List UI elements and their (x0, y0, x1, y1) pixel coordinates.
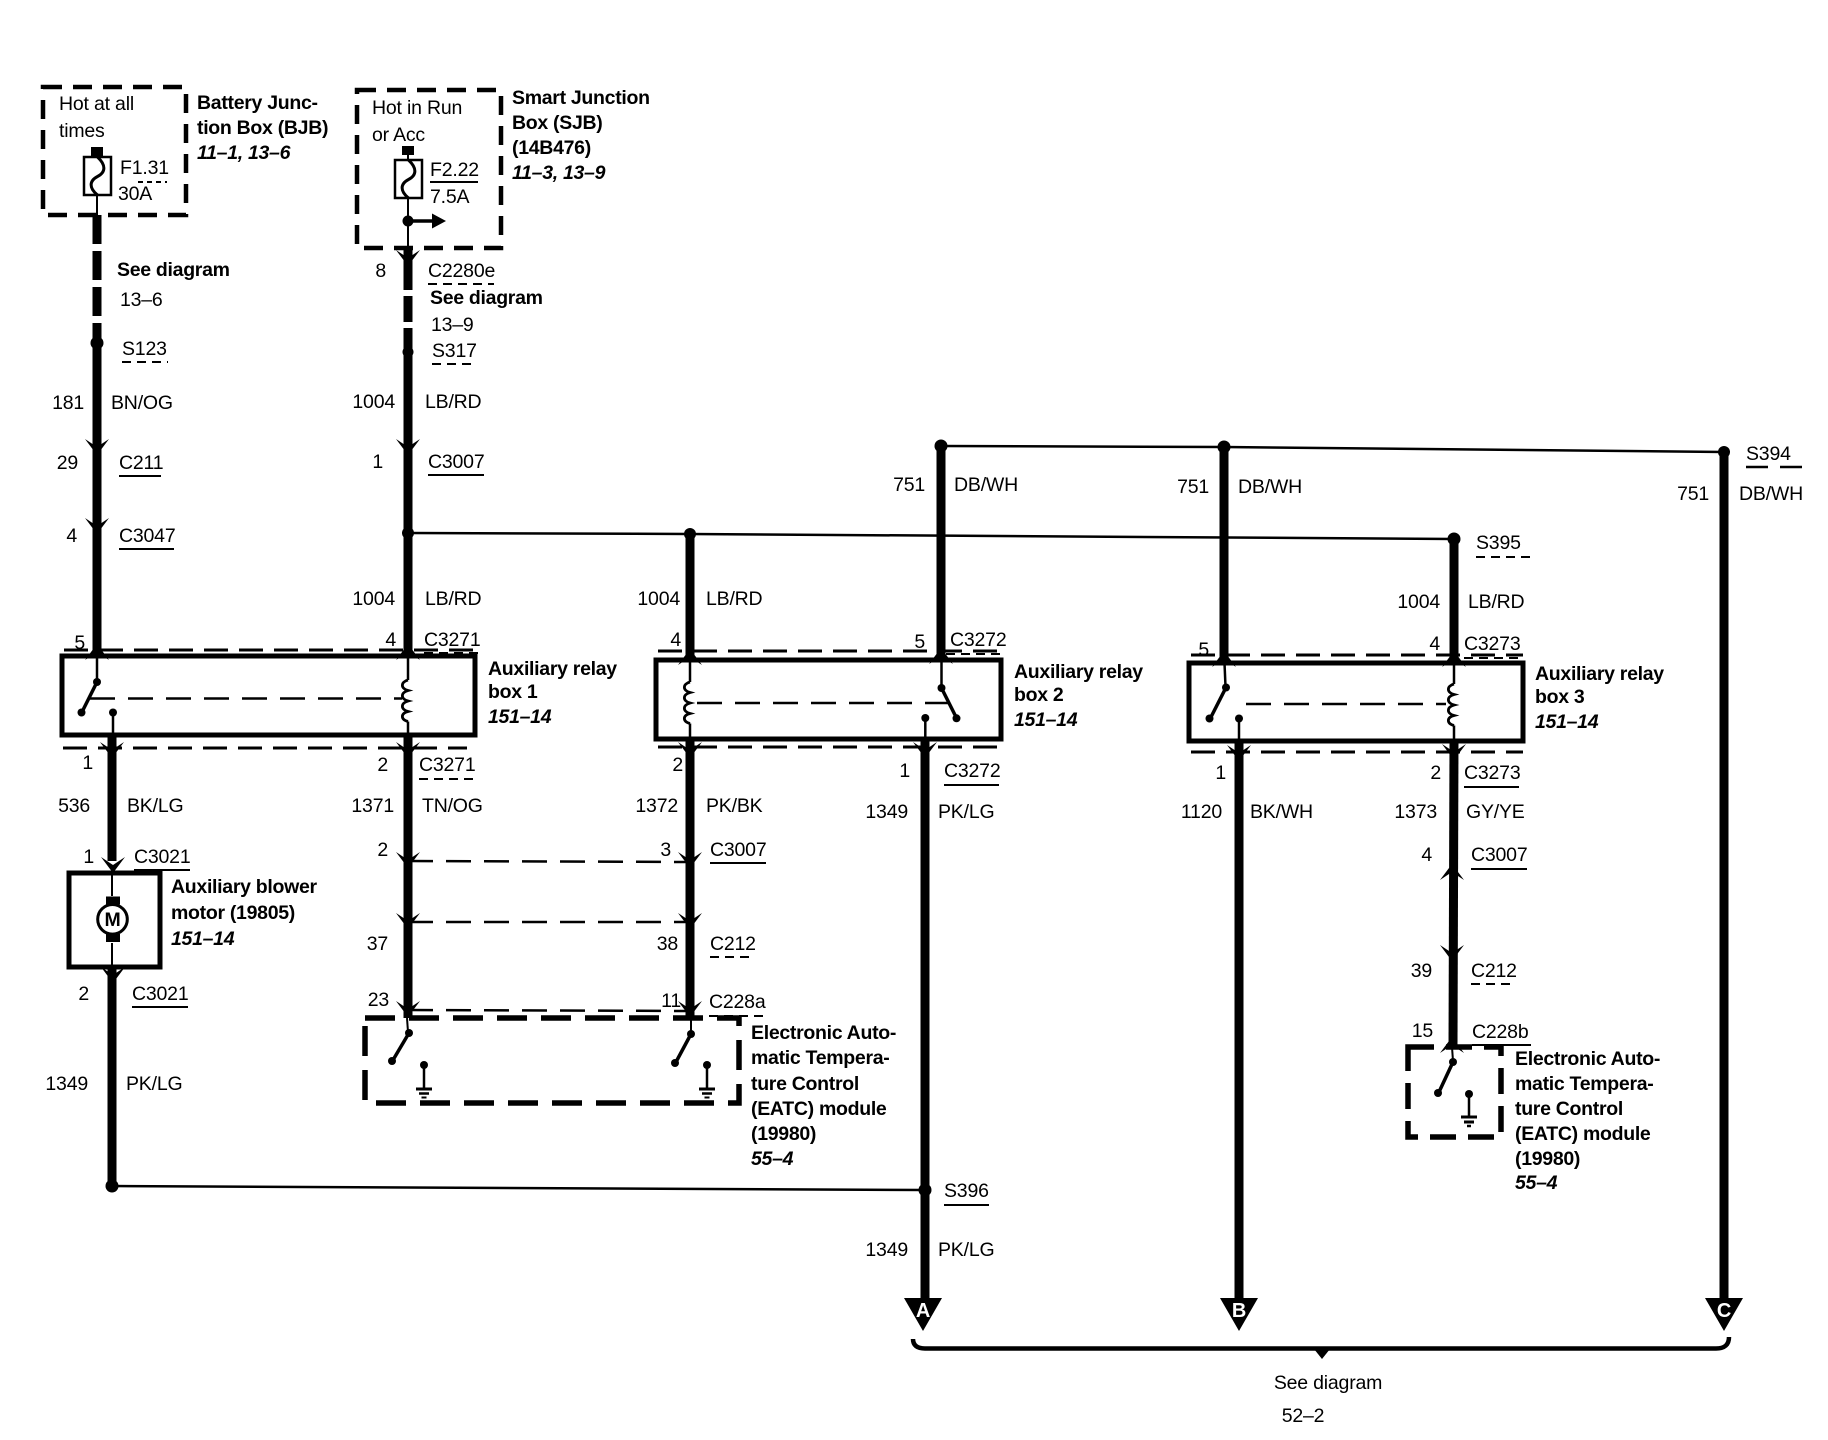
svg-text:751: 751 (893, 474, 925, 496)
svg-text:1349: 1349 (45, 1073, 88, 1095)
svg-text:(19980): (19980) (1515, 1148, 1580, 1170)
svg-text:PK/LG: PK/LG (938, 1239, 994, 1261)
svg-text:motor (19805): motor (19805) (171, 902, 295, 924)
svg-text:536: 536 (58, 795, 90, 817)
svg-text:Hot in Run: Hot in Run (372, 97, 462, 119)
svg-text:4: 4 (66, 525, 77, 547)
svg-text:1004: 1004 (352, 588, 395, 610)
svg-text:TN/OG: TN/OG (422, 795, 483, 817)
svg-text:BK/WH: BK/WH (1250, 801, 1313, 823)
svg-text:Electronic Auto-: Electronic Auto- (751, 1022, 896, 1044)
svg-text:M: M (104, 909, 120, 931)
svg-text:39: 39 (1411, 960, 1432, 982)
svg-text:1004: 1004 (637, 588, 680, 610)
svg-text:DB/WH: DB/WH (954, 474, 1018, 496)
svg-text:C3047: C3047 (119, 525, 175, 547)
svg-text:C3271: C3271 (419, 754, 475, 776)
svg-text:C3021: C3021 (132, 983, 188, 1005)
svg-text:1372: 1372 (635, 795, 678, 817)
svg-text:2: 2 (78, 983, 89, 1005)
svg-text:151–14: 151–14 (1535, 711, 1599, 733)
svg-text:55–4: 55–4 (751, 1148, 794, 1170)
svg-text:13–6: 13–6 (120, 289, 163, 311)
svg-text:151–14: 151–14 (171, 928, 235, 950)
svg-text:C212: C212 (1471, 960, 1517, 982)
svg-text:11–3, 13–9: 11–3, 13–9 (512, 162, 606, 184)
svg-text:matic Tempera-: matic Tempera- (1515, 1073, 1654, 1095)
svg-text:2: 2 (1430, 762, 1441, 784)
svg-text:F2.22: F2.22 (430, 159, 479, 181)
svg-text:Auxiliary relay: Auxiliary relay (488, 658, 617, 680)
svg-text:2: 2 (672, 754, 683, 776)
svg-text:S395: S395 (1476, 532, 1521, 554)
svg-text:C: C (1717, 1300, 1731, 1322)
svg-text:See diagram: See diagram (1274, 1372, 1382, 1394)
svg-text:Auxiliary relay: Auxiliary relay (1535, 663, 1664, 685)
svg-text:DB/WH: DB/WH (1238, 476, 1302, 498)
svg-text:30A: 30A (118, 183, 152, 205)
svg-text:GY/YE: GY/YE (1466, 801, 1525, 823)
svg-text:C3272: C3272 (944, 760, 1000, 782)
svg-text:C212: C212 (710, 933, 756, 955)
svg-text:or Acc: or Acc (372, 124, 425, 146)
svg-text:C3271: C3271 (424, 629, 480, 651)
svg-text:1349: 1349 (865, 801, 908, 823)
svg-text:C3007: C3007 (710, 839, 766, 861)
svg-text:55–4: 55–4 (1515, 1172, 1558, 1194)
svg-text:52–2: 52–2 (1282, 1405, 1325, 1427)
svg-text:C211: C211 (119, 452, 163, 474)
svg-text:times: times (59, 120, 105, 142)
svg-text:S394: S394 (1746, 443, 1791, 465)
svg-text:11–1, 13–6: 11–1, 13–6 (197, 142, 291, 164)
svg-text:Auxiliary blower: Auxiliary blower (171, 876, 318, 898)
svg-text:13–9: 13–9 (431, 314, 474, 336)
svg-text:23: 23 (368, 989, 389, 1011)
svg-text:8: 8 (375, 260, 386, 282)
svg-text:matic Tempera-: matic Tempera- (751, 1047, 890, 1069)
svg-text:1373: 1373 (1394, 801, 1437, 823)
svg-text:2: 2 (377, 839, 388, 861)
svg-text:C3273: C3273 (1464, 762, 1520, 784)
svg-text:PK/BK: PK/BK (706, 795, 763, 817)
svg-text:4: 4 (1421, 844, 1432, 866)
svg-text:C3272: C3272 (950, 629, 1006, 651)
svg-text:3: 3 (660, 839, 671, 861)
svg-text:BN/OG: BN/OG (111, 392, 173, 414)
svg-text:C3007: C3007 (1471, 844, 1527, 866)
svg-text:751: 751 (1177, 476, 1209, 498)
svg-text:1004: 1004 (352, 391, 395, 413)
svg-text:C3007: C3007 (428, 451, 484, 473)
svg-text:(19980): (19980) (751, 1123, 816, 1145)
svg-text:Smart Junction: Smart Junction (512, 87, 650, 109)
svg-text:S317: S317 (432, 340, 477, 362)
svg-text:Auxiliary relay: Auxiliary relay (1014, 661, 1143, 683)
svg-text:S123: S123 (122, 338, 167, 360)
svg-text:Hot at all: Hot at all (59, 93, 134, 115)
svg-text:15: 15 (1412, 1020, 1434, 1042)
svg-text:C3273: C3273 (1464, 633, 1520, 655)
svg-text:BK/LG: BK/LG (127, 795, 183, 817)
svg-text:751: 751 (1677, 483, 1709, 505)
svg-text:11: 11 (661, 990, 681, 1012)
svg-text:LB/RD: LB/RD (425, 391, 482, 413)
svg-text:1004: 1004 (1397, 591, 1440, 613)
svg-text:B: B (1232, 1300, 1246, 1322)
svg-text:PK/LG: PK/LG (938, 801, 994, 823)
svg-text:5: 5 (1198, 639, 1209, 661)
svg-text:A: A (916, 1300, 930, 1322)
svg-text:1: 1 (899, 760, 910, 782)
svg-text:ture Control: ture Control (1515, 1098, 1623, 1120)
svg-text:C228a: C228a (709, 991, 766, 1013)
svg-text:ture Control: ture Control (751, 1073, 859, 1095)
svg-text:1120: 1120 (1181, 801, 1222, 823)
svg-text:29: 29 (57, 452, 78, 474)
svg-text:LB/RD: LB/RD (706, 588, 763, 610)
svg-text:See diagram: See diagram (117, 259, 230, 281)
svg-text:1: 1 (82, 752, 93, 774)
svg-text:box 2: box 2 (1014, 684, 1064, 706)
svg-text:4: 4 (385, 629, 396, 651)
svg-text:Electronic Auto-: Electronic Auto- (1515, 1048, 1660, 1070)
svg-text:1: 1 (372, 451, 383, 473)
svg-text:5: 5 (914, 631, 925, 653)
svg-text:37: 37 (367, 933, 388, 955)
svg-text:7.5A: 7.5A (430, 186, 470, 208)
svg-text:151–14: 151–14 (1014, 709, 1078, 731)
svg-text:tion Box (BJB): tion Box (BJB) (197, 117, 328, 139)
svg-text:1: 1 (83, 846, 94, 868)
svg-text:1349: 1349 (865, 1239, 908, 1261)
svg-text:4: 4 (1429, 633, 1440, 655)
svg-text:box 1: box 1 (488, 681, 538, 703)
svg-text:C228b: C228b (1472, 1021, 1529, 1043)
svg-text:181: 181 (52, 392, 84, 414)
svg-text:F1.31: F1.31 (120, 157, 169, 179)
svg-text:C3021: C3021 (134, 846, 190, 868)
svg-text:LB/RD: LB/RD (425, 588, 482, 610)
svg-text:1: 1 (1215, 762, 1226, 784)
svg-text:151–14: 151–14 (488, 706, 552, 728)
svg-text:Battery Junc-: Battery Junc- (197, 92, 318, 114)
svg-text:C2280e: C2280e (428, 260, 495, 282)
svg-text:See diagram: See diagram (430, 287, 543, 309)
svg-text:Box (SJB): Box (SJB) (512, 112, 602, 134)
svg-text:S396: S396 (944, 1180, 989, 1202)
svg-text:1371: 1371 (351, 795, 394, 817)
svg-text:2: 2 (377, 754, 388, 776)
svg-text:DB/WH: DB/WH (1739, 483, 1803, 505)
svg-text:38: 38 (657, 933, 678, 955)
svg-text:(EATC) module: (EATC) module (1515, 1123, 1651, 1145)
svg-text:box 3: box 3 (1535, 686, 1585, 708)
svg-text:(14B476): (14B476) (512, 137, 591, 159)
svg-text:LB/RD: LB/RD (1468, 591, 1525, 613)
svg-text:PK/LG: PK/LG (126, 1073, 182, 1095)
svg-text:4: 4 (670, 629, 681, 651)
svg-text:(EATC) module: (EATC) module (751, 1098, 887, 1120)
